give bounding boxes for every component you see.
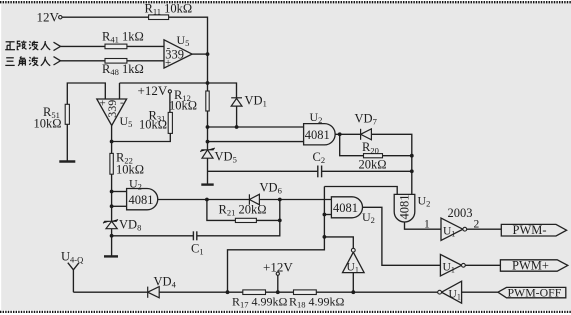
wire C1 row <box>112 235 194 237</box>
svg-text:339: 339 <box>165 48 184 62</box>
wire sine input row <box>61 45 106 47</box>
diode VD1 <box>231 98 242 106</box>
flag PWM+ <box>500 259 567 273</box>
wire 12V to R11 <box>62 16 149 18</box>
input chevron triangle <box>54 57 61 65</box>
resistor R41 <box>105 44 127 49</box>
svg-text:4081: 4081 <box>398 195 412 220</box>
svg-text:4081: 4081 <box>129 193 154 207</box>
junction VD4 / net <box>226 290 230 294</box>
op-amp U5 top comparator 339 <box>164 33 192 69</box>
junction gate B input 2 <box>323 213 327 217</box>
svg-text:R21 20kΩ: R21 20kΩ <box>219 203 267 218</box>
AND gate C U2 4081 vertical <box>394 194 430 222</box>
resistor R22 <box>110 153 113 174</box>
junction gate D output / R21 <box>205 198 209 202</box>
svg-text:PWM-: PWM- <box>513 223 547 237</box>
resistor R18 <box>294 290 317 295</box>
junction R12 bottom <box>206 125 210 129</box>
junction R21 right <box>278 219 282 223</box>
wire R51 to ground <box>66 124 68 161</box>
wire VD8 to ground <box>111 229 113 256</box>
AND gate A U2 4081 top <box>304 110 336 145</box>
label sine input (hand-drawn CJK) <box>5 41 50 50</box>
svg-text:+12V: +12V <box>138 83 168 98</box>
svg-text:PWM-OFF: PWM-OFF <box>508 285 562 299</box>
junction U5a output / R11 net <box>206 52 210 56</box>
svg-text:10kΩ: 10kΩ <box>169 99 197 113</box>
wire U5a output <box>192 53 207 55</box>
svg-text:PWM+: PWM+ <box>512 259 549 273</box>
zener VD5 <box>200 148 214 158</box>
wire U1a output to PWM- flag <box>467 228 502 230</box>
capacitor C2 <box>318 166 322 178</box>
wire gate C output to U1a <box>405 222 442 229</box>
svg-text:R11 10kΩ: R11 10kΩ <box>145 2 193 17</box>
wire U5b output down <box>111 126 113 154</box>
top dotted border <box>0 1 571 3</box>
junction comparator minus input net <box>206 81 210 85</box>
wire +12V bottom stub <box>277 275 279 292</box>
resistor R31 <box>168 112 172 133</box>
wire R11 to corner and down to R12 <box>169 17 208 91</box>
AND gate B U2 4081 lower <box>331 197 375 225</box>
diode VD6 <box>249 194 259 204</box>
wire y127 to gate A top input <box>208 126 304 128</box>
svg-text:10kΩ: 10kΩ <box>34 117 62 131</box>
wire R21 branch <box>207 200 236 221</box>
wire VD1 bottom stub <box>236 106 238 127</box>
wire vertical net x324 <box>228 187 325 293</box>
zener VD8 <box>103 219 118 228</box>
junction +12V bottom <box>276 290 280 294</box>
inverter U1a top 2003 <box>424 206 480 240</box>
wire R31 bottom to U5b output junction <box>112 133 171 141</box>
wire right segment y83 to VD1 <box>120 83 237 98</box>
inverter U1d pointing up <box>343 248 365 274</box>
diode VD4 <box>148 287 160 298</box>
wire y141.6 to gate A bottom input <box>208 141 304 143</box>
svg-text:20kΩ: 20kΩ <box>359 157 387 171</box>
svg-text:10kΩ: 10kΩ <box>116 163 144 177</box>
wire U1c input from PWM-OFF flag <box>462 291 498 293</box>
input chevron sine <box>54 42 61 50</box>
terminal +12V bottom <box>276 272 279 275</box>
wire gate B bottom input stub <box>324 214 331 216</box>
wire +12V top to R31 <box>169 93 171 112</box>
ground under VD5 <box>201 183 213 185</box>
bottom dotted border <box>0 311 571 313</box>
svg-text:2: 2 <box>474 219 480 231</box>
svg-text:4081: 4081 <box>333 201 358 215</box>
label triangle input (hand-drawn CJK) <box>5 56 50 65</box>
svg-text:-: - <box>120 97 124 109</box>
ground under VD8 <box>104 255 118 257</box>
svg-text:R41 1kΩ: R41 1kΩ <box>102 30 144 45</box>
wire R22 to gate D inputs and VD8 <box>111 174 113 221</box>
resistor R20 <box>364 154 383 158</box>
wire U4-Q terminal <box>68 263 79 270</box>
wire left segment y83 to R51 and U5b plus input <box>67 83 105 104</box>
resistor R11 <box>149 15 169 20</box>
junction U1d bottom <box>351 290 355 294</box>
junction U5b output / R31 <box>110 140 114 144</box>
wire gate D output to VD6 <box>155 199 249 201</box>
svg-text:R48 1kΩ: R48 1kΩ <box>102 62 144 77</box>
resistor R12 <box>206 91 209 111</box>
AND gate D U2 4081 middle-left <box>127 177 158 210</box>
inverter U1b middle right <box>440 254 465 276</box>
junction VD5 net <box>206 140 210 144</box>
junction VD1 bottom <box>235 125 239 129</box>
svg-text:+12V: +12V <box>263 260 293 275</box>
junction U1d branch <box>323 235 327 239</box>
ground under R51 <box>59 160 75 162</box>
flag PWM- <box>501 223 566 237</box>
wire bottom rail <box>73 291 147 293</box>
svg-text:12V: 12V <box>37 10 60 25</box>
wire U1d bottom stub <box>352 273 354 293</box>
junction C2 right <box>410 169 414 173</box>
wire R20 branch <box>340 134 364 155</box>
junction R20 right <box>410 154 414 158</box>
wire U1b output to PWM+ flag <box>465 264 500 266</box>
svg-text:339: 339 <box>105 100 119 118</box>
terminal 12V <box>59 16 62 19</box>
wire to U1d bubble <box>324 237 353 248</box>
wire gate B output to U1b <box>361 207 441 265</box>
resistor R51 <box>65 104 69 124</box>
junction gate D input 2 <box>110 204 114 208</box>
wire C2 row <box>208 170 318 172</box>
wire VD6 to gate B top input <box>259 199 331 201</box>
junction VD8 / C1 <box>110 234 114 238</box>
wire R12 bottom down to VD5 <box>207 111 209 150</box>
resistor R17 <box>243 290 266 295</box>
wire VD7 to right corner down <box>371 134 411 194</box>
wire gate C left input <box>324 187 397 195</box>
capacitor C1 <box>193 231 196 240</box>
junction VD6 / R21 return <box>278 198 282 202</box>
svg-text:1: 1 <box>424 219 430 231</box>
wire triangle input row <box>61 60 106 62</box>
terminal +12V top <box>168 90 171 93</box>
diode VD7 <box>361 129 372 140</box>
svg-text:4081: 4081 <box>305 128 330 142</box>
junction gate A output / R20 <box>338 132 342 136</box>
resistor R21 <box>235 218 256 222</box>
junction gate D input 1 <box>110 190 114 194</box>
svg-text:10kΩ: 10kΩ <box>139 118 167 132</box>
inverter U1c bottom pointing left <box>438 281 462 303</box>
wire VD5 to ground <box>207 158 209 184</box>
op-amp U5 bottom comparator 339 pointing down <box>97 97 133 130</box>
resistor R48 <box>105 59 127 64</box>
svg-text:2003: 2003 <box>448 206 473 220</box>
wire gate A output <box>333 133 361 135</box>
flag PWM-OFF input <box>498 285 566 299</box>
